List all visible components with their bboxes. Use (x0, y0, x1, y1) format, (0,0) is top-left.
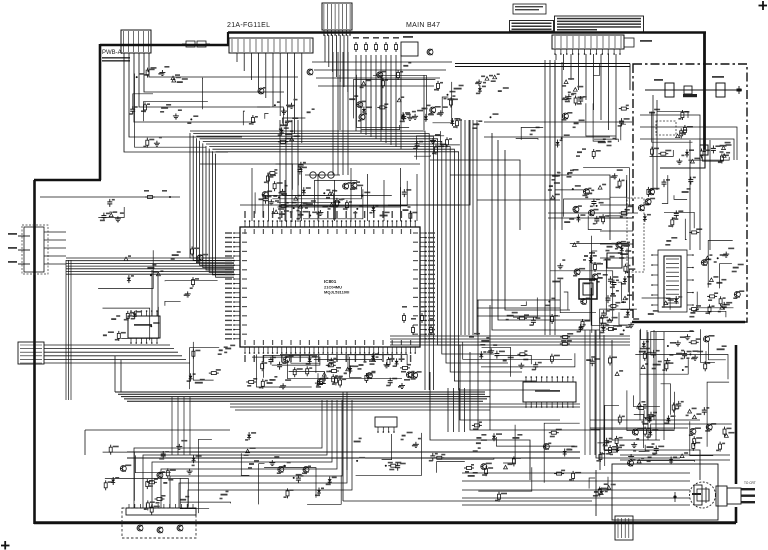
wire mid horizontals right (390, 335, 630, 337)
vertical drops below CN21A (279, 120, 281, 222)
photocoupler dashed box (627, 198, 644, 272)
border left lower (33, 180, 36, 524)
wire bottom long (343, 500, 592, 502)
bus: vertical bundle left of IC801 (190, 133, 234, 277)
wire net long C (151, 270, 153, 316)
wires from CNP1 (124, 53, 298, 152)
wire net long D (157, 274, 159, 316)
wire hot feed (660, 152, 705, 168)
wire loop right-mid G (460, 345, 560, 420)
components above IC801 (255, 180, 411, 219)
top mid extra (433, 82, 464, 147)
hot mid wires (640, 115, 700, 160)
pins of CNT (554, 49, 621, 55)
CRT socket (690, 482, 716, 508)
right mid cluster (573, 179, 633, 230)
AV block transistor B (157, 527, 163, 533)
bus: left harness to IC801 (66, 258, 234, 274)
AV block transistor A (137, 525, 143, 531)
IC801 right pins (420, 232, 435, 339)
mesh bottom-right h (590, 419, 700, 421)
border right lower (735, 507, 738, 523)
hot-cold link wires (600, 204, 633, 206)
transistor Q803 (427, 49, 433, 55)
hot: mid components (638, 175, 702, 246)
svg-text:MQJL531100I: MQJL531100I (324, 290, 349, 295)
IC101 (small, left) (128, 310, 160, 344)
border top-left segment (100, 44, 229, 47)
svg-text:IC801: IC801 (324, 279, 337, 284)
wire centre drop (342, 392, 344, 501)
switching transformer T801 (658, 250, 687, 312)
connector CNV (top centre vertical) (322, 3, 352, 30)
branch wires to right section (477, 200, 560, 316)
jack connector CNJ (dashed) (8, 225, 48, 274)
component cluster below CNT (472, 73, 543, 139)
hot-bottom strip cluster (641, 329, 727, 372)
AV block transistor C (177, 525, 183, 531)
wires from CNT (556, 54, 616, 140)
CRT spark gap (673, 495, 676, 498)
IC video driver (double box) (579, 279, 597, 299)
wires from CNJ (44, 232, 66, 264)
bottom-right cluster D (591, 390, 702, 464)
PWB-A note lines (102, 57, 130, 62)
IC801 top pins (244, 211, 416, 227)
long vertical wires from CNV (333, 52, 348, 175)
wire long lower A (127, 451, 580, 453)
nested wire loop C (505, 150, 570, 310)
bottom centre extra (434, 433, 522, 473)
component cluster below CN21A (243, 87, 314, 143)
svg-text:MAIN B47: MAIN B47 (406, 22, 440, 29)
wire degauss drop (595, 470, 597, 516)
hot: vertical links (689, 140, 691, 250)
nested wire loop D (388, 120, 470, 205)
hot left verticals (652, 95, 654, 190)
ladder verticals (339, 75, 341, 130)
transformer pins left (651, 254, 658, 306)
bottom-right cluster A (463, 333, 575, 377)
vertical riser for left harness (65, 260, 67, 400)
wires from CNV (325, 35, 348, 92)
audio driver cluster (103, 439, 231, 514)
connector CN lower mid (375, 417, 397, 433)
nested wire loop A (492, 133, 600, 330)
right column extra (601, 256, 636, 329)
AV block pin strip (126, 504, 196, 515)
long verticals right of CNT (544, 60, 546, 335)
mid-left extra (187, 342, 236, 389)
hot: regulator cluster (688, 142, 731, 164)
IC801 bottom pins (244, 347, 416, 362)
note box 1 (510, 21, 554, 32)
resistor ladder R8xx (353, 37, 399, 52)
component cluster mid-left (262, 162, 316, 209)
registration mark bottom-left (1, 541, 10, 550)
svg-text:TO CRT: TO CRT (744, 481, 756, 485)
riser group lower-left (171, 397, 173, 455)
registration mark top-right (759, 1, 768, 10)
video amp cluster (548, 168, 630, 230)
connector CNP1 (top-left) (121, 30, 151, 53)
CRT block enclosure (612, 464, 718, 520)
hot: top power chain (649, 109, 694, 164)
component cluster below CNP1 (129, 66, 208, 148)
resistor pair block (182, 41, 210, 47)
wire loop bottom-right J (596, 330, 680, 458)
transformer pins right (687, 254, 694, 306)
bundle tails down (447, 388, 449, 432)
nested wire loop F (450, 175, 610, 240)
hot feed component (700, 145, 708, 155)
bus: 9-line harness top to right of IC801 (190, 131, 550, 390)
under-IC extra parts (261, 355, 422, 389)
wire right-mid h2 (484, 136, 610, 138)
components around IC101 (103, 307, 160, 341)
transistor Q804 (307, 69, 313, 75)
bottom-right dense cluster E (596, 395, 660, 466)
relay box (607, 253, 622, 268)
bundle tails right pair (477, 300, 479, 430)
wires right knot (548, 212, 638, 214)
AV jack block (dashed) (122, 508, 196, 538)
wire net long B (240, 204, 460, 206)
wire long lower B (127, 457, 580, 459)
note box 2 (cautions) (555, 16, 644, 32)
mesh bottom-right v (647, 332, 649, 440)
wire right-mid h1 (484, 121, 632, 123)
border heavy vertical drop (hot supply) (703, 32, 706, 152)
above-IC extra parts (259, 187, 418, 221)
degauss relay cluster (589, 477, 616, 497)
IC801 label (324, 279, 349, 295)
connector CNT (top right) (552, 35, 624, 49)
centre lower cluster (241, 432, 341, 504)
wire loop right-mid H (470, 352, 600, 470)
vertical drops to IC top pins (251, 168, 253, 221)
hot: dashed sub box (656, 121, 676, 135)
bottom-right corner cluster (642, 382, 735, 456)
components right of IC801 inner (506, 298, 541, 326)
degauss connector (615, 516, 633, 540)
long verticals below CNT (554, 62, 556, 230)
IC801 body (240, 227, 420, 347)
component cluster x-tal area (400, 105, 448, 160)
wire loop bottom-right K (604, 335, 700, 480)
border top step (227, 32, 229, 46)
CNL vertical drops (114, 356, 116, 392)
sync cluster (545, 236, 632, 329)
wire right column riser (584, 330, 586, 455)
pins of CNV (323, 30, 351, 36)
connector CN21A (on top border) (229, 38, 313, 53)
wire net long A2 (200, 163, 420, 165)
hot area bottom heavy line (632, 321, 745, 323)
hot top chain wire (645, 89, 742, 91)
knot at IC right-bottom (403, 313, 405, 316)
nested wire loop E (430, 160, 520, 230)
wire audio rail (85, 429, 230, 431)
right lower-mid cluster (577, 242, 630, 333)
bus: heavy lower horizontal (115, 392, 490, 401)
CRT connector plug (716, 481, 756, 506)
power feed lines to hot area (455, 63, 630, 65)
parts on net A (145, 196, 148, 198)
component cluster right of CNT (556, 63, 630, 159)
wire loop bottom-right L (612, 340, 660, 440)
isolation boundary (dash-dot hot area) (633, 64, 747, 322)
component cluster top-centre (349, 62, 458, 130)
IC chroma/jungle aux box (523, 376, 576, 408)
connector CNL (lower left) (18, 342, 44, 364)
bus: lower lines 2 (230, 404, 580, 410)
hot top chain parts (665, 83, 674, 97)
svg-text:PWB-A: PWB-A (102, 50, 122, 56)
right knot corner (599, 309, 639, 339)
border top main segment (228, 31, 706, 34)
nested wire loop B (498, 140, 590, 320)
plug stub right of CNT (624, 38, 652, 47)
IC801 left pins (225, 232, 240, 339)
wire net long A (40, 196, 180, 198)
wires from CN21A (237, 53, 302, 143)
hot bottom inner cluster (642, 296, 733, 317)
bus: vertical bundle right-centre (461, 120, 477, 335)
crystal X801 box (401, 36, 418, 56)
components left of IC801 (98, 247, 218, 306)
bottom-right cluster B (586, 335, 728, 379)
vertical feeds right-bottom (639, 330, 641, 420)
bus: descent to audio/AV block (134, 400, 352, 508)
component cluster left margin (98, 199, 124, 222)
horiz feeds right-bottom (620, 454, 730, 456)
IC801 inner pin numbers (242, 229, 418, 345)
border bottom (34, 521, 736, 524)
components below IC801 (246, 353, 411, 389)
border left step (34, 179, 101, 182)
bottom-right cluster C (464, 421, 581, 501)
lower mid small cluster (354, 432, 438, 476)
wire loop right-mid I (430, 372, 530, 480)
border left upper (99, 44, 102, 180)
svg-text:21A-FG11EL: 21A-FG11EL (227, 22, 270, 29)
hot: around transformer (697, 241, 744, 313)
bead row above IC (310, 172, 316, 178)
note box small (513, 4, 546, 14)
wires from CNL (44, 345, 190, 363)
wires to CRT socket (462, 472, 690, 474)
wire staircase top-centre (312, 61, 452, 63)
vertical drops from ladder (355, 55, 357, 131)
